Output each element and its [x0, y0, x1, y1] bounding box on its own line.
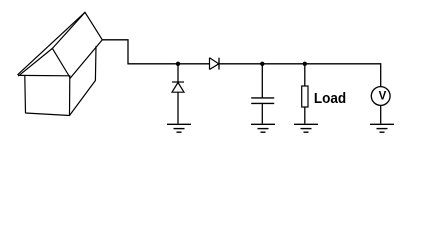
svg-text:Load: Load — [314, 91, 346, 107]
svg-text:V: V — [379, 91, 387, 103]
